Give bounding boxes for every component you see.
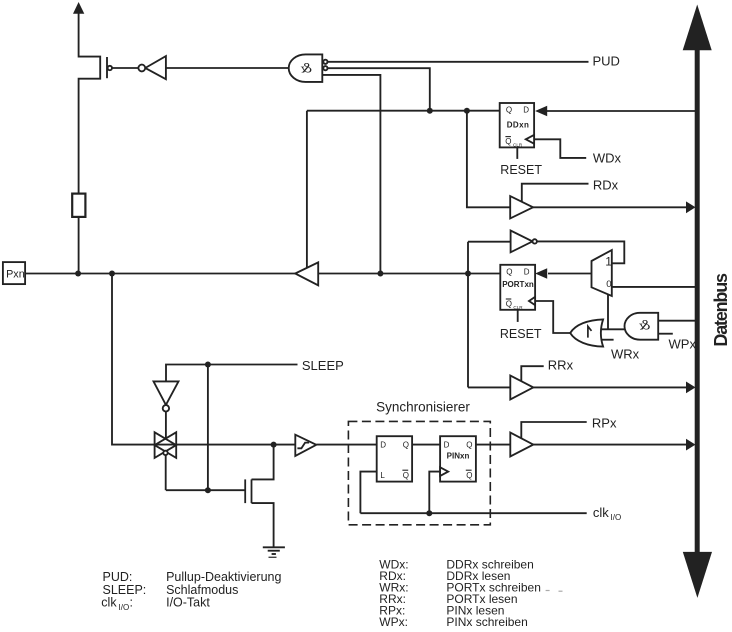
svg-text:RPx: RPx (592, 415, 617, 430)
svg-text:SLEEP: SLEEP (302, 358, 344, 373)
svg-text:Q: Q (506, 267, 512, 276)
svg-text:Q: Q (466, 440, 472, 449)
svg-text:PINxn: PINxn (447, 452, 470, 461)
svg-text:WPx:: WPx: (379, 615, 408, 629)
svg-text:WRx: WRx (611, 347, 640, 362)
svg-text:RRx: RRx (548, 357, 574, 372)
svg-text:Q: Q (505, 137, 511, 146)
svg-text:Q: Q (506, 300, 512, 309)
svg-text:Q: Q (403, 471, 409, 480)
svg-text:Q: Q (506, 106, 512, 115)
svg-text:clk: clk (101, 596, 117, 610)
svg-text:clk: clk (593, 505, 609, 520)
svg-text:RESET: RESET (500, 163, 542, 177)
svg-text::: : (130, 596, 133, 610)
svg-text:D: D (524, 267, 530, 276)
svg-text:PORTxn: PORTxn (502, 280, 534, 289)
svg-text:CLR: CLR (513, 305, 523, 310)
svg-text:WPx: WPx (669, 336, 697, 351)
svg-text:I/O: I/O (119, 603, 130, 612)
svg-text:WDx: WDx (593, 151, 622, 166)
svg-text:RESET: RESET (500, 327, 542, 341)
svg-text:D: D (444, 440, 450, 449)
svg-text:Synchronisierer: Synchronisierer (376, 399, 470, 414)
svg-text:Pxn: Pxn (6, 268, 25, 280)
svg-text:Datenbus: Datenbus (711, 273, 731, 347)
svg-text:D: D (380, 440, 386, 449)
svg-text:1: 1 (605, 254, 612, 268)
svg-text:PUD: PUD (593, 54, 620, 69)
svg-text:I/O: I/O (611, 513, 622, 522)
svg-text:I/O-Takt: I/O-Takt (166, 596, 210, 610)
svg-text:CLR: CLR (513, 143, 523, 148)
svg-text:D: D (523, 106, 529, 115)
svg-text:Q: Q (403, 440, 409, 449)
svg-text:RDx: RDx (593, 177, 619, 192)
svg-text:0: 0 (606, 279, 611, 290)
svg-text:L: L (380, 471, 385, 480)
svg-text:DDxn: DDxn (507, 120, 530, 129)
svg-text:Q: Q (466, 471, 472, 480)
svg-text:PINx schreiben: PINx schreiben (446, 615, 527, 629)
svg-text:&: & (638, 318, 650, 334)
svg-text:&: & (300, 61, 312, 77)
